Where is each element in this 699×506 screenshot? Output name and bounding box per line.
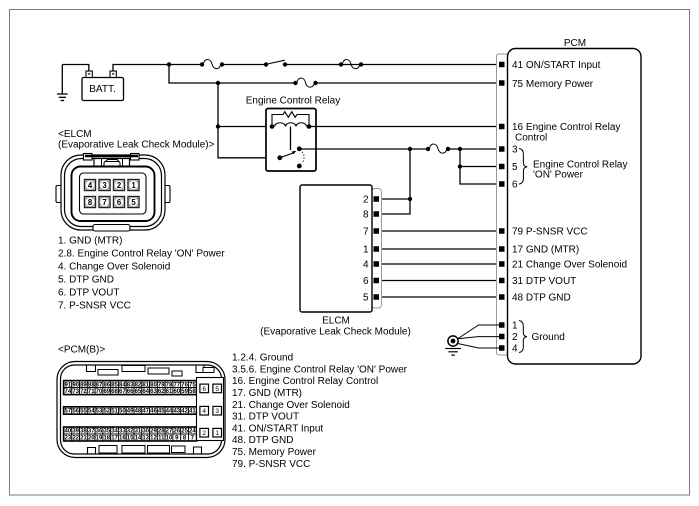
svg-text:17: 17	[111, 435, 118, 441]
pin 8	[84, 196, 95, 207]
svg-text:79. P-SNSR VCC: 79. P-SNSR VCC	[232, 459, 310, 470]
wire ELCM pin 4 to PCM pin 21	[380, 263, 500, 265]
ELCM connector strip	[372, 189, 382, 309]
top notches	[87, 365, 96, 372]
svg-text:64: 64	[142, 389, 149, 395]
side tabs	[56, 186, 62, 203]
svg-text:4: 4	[512, 344, 518, 355]
svg-text:43: 43	[173, 409, 180, 415]
svg-text:44: 44	[166, 409, 173, 415]
svg-text:21. Change Over Solenoid: 21. Change Over Solenoid	[232, 400, 350, 411]
svg-text:21: 21	[80, 435, 87, 441]
svg-text:61: 61	[166, 389, 173, 395]
svg-text:75. Memory Power: 75. Memory Power	[232, 447, 317, 458]
wire ground to battery	[62, 65, 89, 72]
svg-text:62: 62	[158, 389, 165, 395]
wire fuse to ignition switch	[222, 64, 266, 66]
svg-text:1: 1	[363, 245, 369, 256]
svg-text:48. DTP GND: 48. DTP GND	[232, 435, 294, 446]
PCM module box U2	[508, 49, 642, 365]
relay switch	[277, 146, 304, 168]
svg-text:2: 2	[363, 195, 369, 206]
svg-text:17 GND (MTR): 17 GND (MTR)	[512, 245, 579, 256]
pin 7	[99, 196, 110, 207]
svg-text:1: 1	[215, 430, 219, 437]
svg-text:73: 73	[72, 389, 79, 395]
top corner tabs	[84, 154, 93, 161]
svg-text:41 ON/START Input: 41 ON/START Input	[512, 60, 601, 71]
fuse F1	[200, 60, 224, 69]
PCM(B) connector face	[57, 362, 225, 458]
wire ignition switch to PCM pin 41	[285, 64, 499, 66]
ELCM pin 5 terminal	[374, 294, 380, 300]
svg-text:52: 52	[103, 409, 110, 415]
ELCM connector face	[56, 154, 170, 232]
cavity 1	[213, 428, 222, 437]
svg-text:31 DTP VOUT: 31 DTP VOUT	[512, 276, 576, 287]
pin row b2: 57-41	[64, 407, 196, 414]
svg-text:4: 4	[202, 408, 206, 415]
svg-text:6: 6	[202, 386, 206, 393]
PCM pin 4 terminal	[499, 345, 505, 351]
svg-text:5: 5	[215, 386, 219, 393]
svg-text:2: 2	[202, 430, 206, 437]
svg-text:67: 67	[119, 389, 126, 395]
outer shell	[57, 362, 225, 458]
PCM pin 48 terminal	[499, 294, 505, 300]
svg-text:BATT.: BATT.	[89, 84, 115, 95]
pin 1	[128, 179, 139, 190]
pin row b3r1: 40-24	[64, 427, 196, 434]
PCM pin 6 terminal	[499, 181, 505, 187]
PCM pin 79 terminal	[499, 228, 505, 234]
svg-text:4: 4	[363, 260, 369, 271]
svg-text:3: 3	[102, 181, 107, 190]
svg-text:14: 14	[135, 435, 142, 441]
svg-text:58: 58	[189, 389, 196, 395]
svg-text:2.8. Engine Control Relay 'ON': 2.8. Engine Control Relay 'ON' Power	[58, 249, 225, 260]
svg-text:45: 45	[158, 409, 165, 415]
svg-text:70: 70	[96, 389, 103, 395]
wire fuse F3 to PCM pin 75	[316, 82, 499, 84]
junction node A	[167, 62, 171, 66]
svg-text:2: 2	[117, 181, 122, 190]
svg-text:5: 5	[131, 198, 136, 207]
svg-text:1. GND (MTR): 1. GND (MTR)	[58, 236, 122, 247]
svg-text:50: 50	[119, 409, 126, 415]
svg-text:20: 20	[88, 435, 95, 441]
svg-text:16. Engine Control Relay Contr: 16. Engine Control Relay Control	[232, 376, 378, 387]
svg-text:3: 3	[215, 408, 219, 415]
ELCM pin 7 terminal	[374, 228, 380, 234]
junction node B	[216, 81, 220, 85]
inner shroud	[72, 167, 155, 222]
svg-text:Control: Control	[515, 133, 547, 144]
fuse F3	[293, 78, 317, 87]
svg-text:65: 65	[135, 389, 142, 395]
svg-text:7: 7	[363, 227, 369, 238]
pin row b3r2: 23-7	[64, 434, 196, 441]
brace pins 3-5-6	[519, 149, 527, 185]
svg-text:41: 41	[189, 409, 196, 415]
svg-text:53: 53	[96, 409, 103, 415]
svg-text:41. ON/START Input: 41. ON/START Input	[232, 423, 323, 434]
pin 6	[113, 196, 124, 207]
ELCM pin 4 terminal	[374, 261, 380, 267]
bottom center tab	[93, 225, 130, 232]
svg-text:22: 22	[72, 435, 79, 441]
brace pins 1-2-4	[519, 321, 527, 353]
svg-text:8: 8	[88, 198, 93, 207]
svg-text:63: 63	[150, 389, 157, 395]
wire ELCM pin 6 to PCM pin 31	[380, 280, 500, 282]
ELCM module box U1	[300, 185, 372, 312]
PCM pin 3 terminal	[499, 146, 505, 152]
pin 3	[99, 179, 110, 190]
svg-text:(Evaporative Leak Check Module: (Evaporative Leak Check Module)>	[58, 140, 215, 151]
cavity 2	[200, 428, 209, 437]
relay coil	[275, 123, 307, 127]
pin 2	[113, 179, 124, 190]
ELCM pin 2 terminal	[374, 196, 380, 202]
svg-text:47: 47	[142, 409, 149, 415]
ground (PCM pins 1,2,4)	[445, 325, 499, 355]
relay resistor	[272, 112, 309, 127]
svg-text:68: 68	[111, 389, 118, 395]
svg-text:6: 6	[512, 180, 518, 191]
svg-text:3: 3	[512, 145, 518, 156]
PCM pin 17 terminal	[499, 246, 505, 252]
svg-text:69: 69	[103, 389, 110, 395]
junction node F	[408, 197, 412, 201]
fuse F4	[426, 144, 450, 153]
junction node C	[216, 124, 220, 128]
ELCM pin list	[58, 236, 225, 312]
svg-text:56: 56	[72, 409, 79, 415]
bottom notches	[88, 448, 96, 455]
svg-text:1: 1	[512, 321, 518, 332]
svg-text:57: 57	[65, 409, 72, 415]
svg-text:12: 12	[150, 435, 157, 441]
svg-text:23: 23	[65, 435, 72, 441]
svg-text:49: 49	[127, 409, 134, 415]
svg-text:59: 59	[181, 389, 188, 395]
wire ELCM pin 1 to PCM pin 17	[380, 248, 500, 250]
svg-text:48 DTP GND: 48 DTP GND	[512, 293, 571, 304]
svg-text:Engine Control Relay: Engine Control Relay	[246, 96, 341, 107]
svg-text:16 Engine Control Relay: 16 Engine Control Relay	[512, 122, 620, 133]
PCM pin 21 terminal	[499, 261, 505, 267]
PCM pin 75 terminal	[499, 80, 505, 86]
svg-text:'ON' Power: 'ON' Power	[533, 170, 584, 181]
svg-text:7: 7	[102, 198, 106, 207]
svg-text:60: 60	[173, 389, 180, 395]
cavity 6	[200, 384, 209, 393]
svg-text:15: 15	[127, 435, 134, 441]
svg-text:51: 51	[111, 409, 118, 415]
outer shell	[61, 155, 165, 230]
wire node G to PCM pin 5	[460, 166, 499, 168]
right pin section	[197, 378, 224, 441]
svg-text:5: 5	[363, 293, 369, 304]
junction node G	[458, 164, 462, 168]
svg-text:31. DTP VOUT: 31. DTP VOUT	[232, 412, 299, 423]
ELCM pin 1 terminal	[374, 246, 380, 252]
cavity 3	[213, 406, 222, 415]
svg-text:6. DTP VOUT: 6. DTP VOUT	[58, 288, 120, 299]
wire node C to relay switch common	[218, 127, 280, 158]
svg-text:11: 11	[158, 435, 165, 441]
svg-text:19: 19	[96, 435, 103, 441]
battery BATT.	[82, 71, 124, 101]
PCM pin 16 terminal	[499, 124, 505, 130]
svg-text:1.2.4. Ground: 1.2.4. Ground	[232, 353, 293, 364]
PCM pin 2 terminal	[499, 334, 505, 340]
svg-text:<PCM(B)>: <PCM(B)>	[58, 345, 105, 356]
svg-text:5: 5	[512, 162, 518, 173]
svg-text:13: 13	[142, 435, 149, 441]
PCM pin 41 terminal	[499, 62, 505, 68]
ELCM pin 8 terminal	[374, 211, 380, 217]
PCM pin 31 terminal	[499, 278, 505, 284]
ignition switch	[264, 60, 287, 66]
wire node D to ELCM pin 8	[380, 149, 411, 214]
wire relay coil to PCM pin 16	[309, 126, 499, 128]
svg-text:PCM: PCM	[564, 38, 586, 49]
svg-text:74: 74	[65, 389, 72, 395]
svg-text:10: 10	[166, 435, 173, 441]
svg-text:6: 6	[363, 276, 369, 287]
wire node B to relay coil	[218, 83, 272, 127]
Engine Control Relay	[246, 96, 341, 172]
svg-text:7. P-SNSR VCC: 7. P-SNSR VCC	[58, 301, 131, 312]
top center latch	[94, 159, 130, 169]
PCM pin 1 terminal	[499, 322, 505, 328]
svg-text:75 Memory Power: 75 Memory Power	[512, 79, 594, 90]
svg-text:55: 55	[80, 409, 87, 415]
ELCM pin 6 terminal	[374, 278, 380, 284]
svg-text:72: 72	[80, 389, 87, 395]
top dark band	[85, 155, 138, 158]
svg-text:54: 54	[88, 409, 95, 415]
PCM pin list	[232, 353, 408, 470]
PCM pin 5 terminal	[499, 164, 505, 170]
svg-text:2: 2	[512, 332, 518, 343]
pin row b1r1: 91-75	[64, 381, 196, 388]
wire battery positive to fuse	[113, 65, 202, 72]
svg-text:71: 71	[88, 389, 95, 395]
svg-text:6: 6	[117, 198, 122, 207]
cavity 4	[200, 406, 209, 415]
svg-text:Ground: Ground	[532, 332, 565, 343]
PCM connector strip	[497, 54, 508, 355]
svg-text:17. GND (MTR): 17. GND (MTR)	[232, 388, 302, 399]
wire ELCM pin 5 to PCM pin 48	[380, 296, 500, 298]
pin row b1r2: 74-58	[64, 388, 196, 395]
relay actuator link	[290, 127, 292, 151]
pin 5	[128, 196, 139, 207]
svg-text:4. Change Over Solenoid: 4. Change Over Solenoid	[58, 262, 170, 273]
wire node E to PCM pin 6	[460, 149, 499, 184]
svg-text:48: 48	[135, 409, 142, 415]
fuse F2	[339, 60, 363, 69]
svg-text:5. DTP GND: 5. DTP GND	[58, 275, 114, 286]
svg-text:1: 1	[131, 181, 136, 190]
svg-text:3.5.6. Engine Control Relay 'O: 3.5.6. Engine Control Relay 'ON' Power	[232, 364, 408, 375]
svg-text:<ELCM: <ELCM	[58, 129, 92, 140]
junction node D	[408, 147, 412, 151]
svg-text:8: 8	[363, 210, 369, 221]
wire relay output to fuse F4	[299, 148, 428, 150]
cavity 5	[213, 384, 222, 393]
ground (battery negative)	[57, 65, 68, 101]
svg-text:ELCM: ELCM	[322, 316, 350, 327]
junction node E	[458, 147, 462, 151]
svg-text:79 P-SNSR VCC: 79 P-SNSR VCC	[512, 227, 588, 238]
wire node F to ELCM pin 2	[380, 198, 411, 200]
wire fuse F4 to PCM pin 3	[448, 148, 499, 150]
svg-text:42: 42	[181, 409, 188, 415]
svg-text:(Evaporative Leak Check Module: (Evaporative Leak Check Module)	[260, 327, 411, 338]
svg-text:4: 4	[88, 181, 93, 190]
svg-text:21 Change Over Solenoid: 21 Change Over Solenoid	[512, 260, 627, 271]
wire ELCM pin 7 to PCM pin 79	[380, 230, 500, 232]
pin 4	[84, 179, 95, 190]
wire node A to fuse F3	[169, 65, 296, 84]
svg-text:18: 18	[103, 435, 110, 441]
svg-text:46: 46	[150, 409, 157, 415]
svg-text:16: 16	[119, 435, 126, 441]
svg-text:66: 66	[127, 389, 134, 395]
